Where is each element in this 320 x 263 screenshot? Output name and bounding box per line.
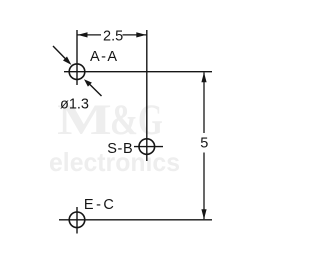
svg-text:5: 5 bbox=[200, 136, 208, 152]
arrowhead 2.5 left bbox=[78, 32, 88, 37]
svg-text:A - A: A - A bbox=[90, 49, 117, 65]
svg-text:G: G bbox=[138, 96, 163, 144]
svg-text:ø1.3: ø1.3 bbox=[60, 96, 89, 112]
wire: horizontal extension line through hole E-C (dim 5 bottom) bbox=[59, 219, 212, 221]
dimension line 5 lower segment bbox=[203, 153, 205, 220]
leader arrow SE for diameter 1.3 bbox=[89, 84, 102, 96]
arrowhead 5 down bbox=[201, 209, 206, 219]
hole S-B crosshair horizontal bbox=[134, 146, 163, 148]
leader arrow NW for diameter 1.3 bbox=[53, 46, 66, 60]
hole A (pad A) circle bbox=[69, 64, 85, 80]
hole E-C crosshair vertical bbox=[76, 207, 78, 234]
dimension line 5 upper segment bbox=[203, 72, 205, 133]
svg-text:S - B: S - B bbox=[107, 141, 133, 157]
dimension line 2.5 right segment bbox=[123, 34, 147, 36]
arrowhead 5 up bbox=[201, 72, 206, 82]
svg-text:E - C: E - C bbox=[84, 197, 114, 213]
wire: horizontal extension line through hole A (dim 5 top) bbox=[64, 71, 212, 73]
svg-text:2.5: 2.5 bbox=[103, 29, 123, 45]
arrowhead 2.5 right bbox=[136, 32, 146, 37]
hole S-B (pad B) circle bbox=[139, 139, 155, 155]
hole E-C (pad C) circle bbox=[69, 212, 85, 228]
svg-text:&: & bbox=[110, 97, 138, 144]
wire: extension line top-left vertical (dim 2.5 left, through hole A) bbox=[76, 30, 78, 85]
dimension line 2.5 left segment bbox=[77, 34, 101, 36]
wire: extension line right vertical (dim 2.5 right, through hole S-B) bbox=[146, 30, 148, 161]
watermark M&G bbox=[57, 96, 163, 144]
